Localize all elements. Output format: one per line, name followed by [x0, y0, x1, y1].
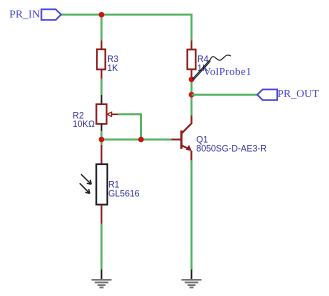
transistor Q1 emitter: [181, 145, 191, 160]
ground symbol right: [182, 280, 202, 288]
svg-text:1K: 1K: [107, 63, 118, 73]
ground symbol left: [92, 280, 112, 288]
wire: R4 bottom through junctions to collector: [191, 79, 193, 115]
resistor R3 body: [97, 49, 105, 69]
resistor R4 pin 2: [191, 69, 193, 79]
svg-text:VolProbe1: VolProbe1: [203, 66, 252, 78]
transistor Q1 collector: [181, 115, 191, 133]
resistor R4 pin 1: [191, 41, 193, 50]
right ground stem: [191, 270, 193, 280]
svg-text:8050SG-D-AE3-R: 8050SG-D-AE3-R: [196, 143, 266, 153]
photoresistor R1 body: [96, 164, 107, 204]
resistor R3 pin 2: [101, 69, 103, 79]
resistor R4 body: [187, 50, 195, 70]
potentiometer R2 pin 1: [101, 95, 103, 104]
junction dot left (R2 bottom node): [99, 137, 105, 143]
transistor Q1 emitter arrowhead: [186, 145, 192, 151]
probe VolProbe1 wave: [210, 55, 231, 60]
photoresistor R1 pin 1: [101, 145, 103, 164]
transistor Q1 base pin: [171, 139, 181, 141]
port PR_OUT symbol: [257, 89, 277, 100]
wire: PR_OUT node to port: [192, 94, 258, 96]
svg-text:PR_OUT: PR_OUT: [277, 88, 319, 100]
wire: R2 bottom to junction row: [101, 131, 103, 145]
left ground stem: [101, 270, 103, 280]
svg-text:PR_IN: PR_IN: [9, 9, 40, 21]
junction dot PR_OUT node: [189, 92, 195, 98]
potentiometer R2 body: [96, 104, 106, 124]
resistor R3 pin 1: [101, 40, 103, 49]
photoresistor R1 pin 2: [101, 205, 103, 224]
wire top: junction to right rail corner and down to R4: [102, 15, 192, 41]
potentiometer R2 wiper arrow: [107, 112, 112, 116]
wire top-left: PR_IN port to top junction: [61, 14, 101, 16]
wire: emitter to right ground: [191, 160, 193, 269]
wire: top junction down to R3 pin: [101, 15, 103, 41]
photoresistor R1 light arrow 2: [80, 183, 90, 193]
wire: R3 to R2: [101, 79, 103, 95]
probe VolProbe1 needle: [193, 60, 211, 80]
wire: R1 to left ground: [101, 224, 103, 270]
potentiometer R2 wiper pin: [112, 113, 118, 115]
photoresistor R1 light arrow 1: [81, 174, 91, 184]
junction dot wiper node: [138, 137, 144, 143]
wire: R2 wiper to junction below: [118, 114, 141, 139]
transistor Q1 base bar: [180, 130, 182, 149]
svg-text:10KΩ: 10KΩ: [73, 119, 96, 129]
junction dot probe node: [189, 77, 195, 83]
wire: junction row to transistor base: [102, 139, 172, 141]
junction dot at top (node PR_IN net): [99, 12, 105, 18]
svg-text:GL5616: GL5616: [108, 189, 139, 199]
port PR_IN symbol: [41, 9, 61, 20]
potentiometer R2 pin 2: [101, 124, 103, 131]
